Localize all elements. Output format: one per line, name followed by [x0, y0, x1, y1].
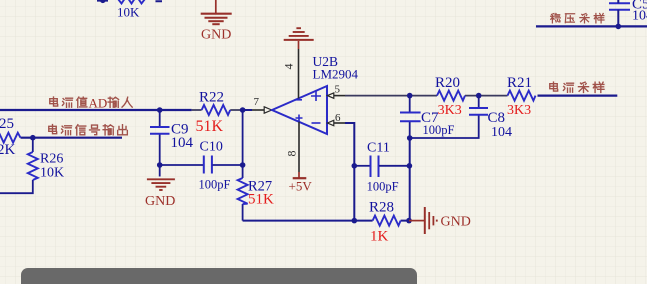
svg-text:7: 7: [254, 96, 260, 108]
svg-text:100pF: 100pF: [199, 178, 231, 192]
svg-text:3K3: 3K3: [438, 103, 462, 118]
resistor 10K top-left (partial, clipped at top): [117, 0, 147, 4]
net label 电流采样: [550, 82, 604, 92]
wire C10 right: [213, 164, 243, 166]
junction C7 top: [407, 93, 413, 99]
ground GND top (x=216): [201, 0, 232, 24]
wire C11 left: [354, 165, 370, 167]
svg-text:GND: GND: [145, 194, 175, 209]
svg-text:R22: R22: [199, 90, 224, 106]
svg-text:10K: 10K: [40, 166, 64, 181]
resistor R26: [28, 152, 38, 180]
svg-text:2K: 2K: [0, 142, 16, 158]
wire C7 bottom to C11 right and down: [409, 138, 411, 221]
pin 6 arrow: [327, 120, 333, 125]
op-amp big minus (pin6): [312, 122, 321, 124]
wire C11 right: [379, 165, 409, 167]
net label 稳压采样: [551, 14, 604, 23]
svg-text:R28: R28: [369, 200, 394, 216]
svg-text:100pF: 100pF: [367, 180, 399, 194]
pin 5 stub: [334, 95, 345, 97]
svg-text:25: 25: [0, 116, 14, 132]
svg-text:C11: C11: [367, 141, 390, 156]
svg-text:R20: R20: [435, 75, 460, 91]
capacitor C5 (top right, partial): [609, 3, 630, 10]
pin 6 stub: [334, 122, 345, 124]
svg-text:10K: 10K: [117, 4, 140, 19]
pin 8 line: [298, 122, 300, 172]
scrollbar thumb: [21, 268, 417, 284]
pin 4 line: [298, 49, 300, 98]
svg-text:LM2904: LM2904: [313, 66, 359, 81]
capacitor C8: [469, 108, 488, 115]
power +5V: [293, 172, 307, 178]
pin 7 stub and label: [252, 109, 264, 111]
wire pin6 net down: [345, 123, 354, 221]
junction at GND right: [406, 218, 412, 224]
op-amp U2B triangle: [272, 86, 327, 134]
junction C9 top: [157, 107, 163, 113]
resistor R28: [373, 216, 401, 226]
svg-text:R26: R26: [40, 152, 63, 167]
svg-text:51K: 51K: [248, 192, 274, 208]
op-amp small plus (pin8 side): [296, 115, 303, 122]
svg-text:3K3: 3K3: [507, 103, 531, 118]
svg-text:GND: GND: [441, 215, 471, 230]
svg-text:AD: AD: [89, 95, 108, 110]
junction C8 top: [476, 93, 482, 99]
junction C10 right: [240, 162, 246, 168]
net label 电流值AD输入: [50, 97, 87, 107]
junction C7 bottom: [407, 135, 413, 141]
wire C10 left: [160, 164, 204, 166]
svg-text:51K: 51K: [196, 118, 224, 135]
svg-text:+5V: +5V: [289, 178, 313, 193]
resistor R20: [437, 91, 465, 101]
wire pin5 net to 电流采样: [345, 95, 508, 97]
power ground right (bar style): [409, 207, 437, 234]
pin 5 arrow: [327, 93, 333, 98]
wire top-left partial: [97, 0, 162, 2]
svg-text:104: 104: [171, 135, 194, 151]
resistor R22: [202, 105, 231, 115]
wire C7 leads: [409, 96, 411, 138]
ground bars above op-amp (pin 4): [284, 28, 314, 49]
junction on 稳压采样 wire: [616, 24, 622, 30]
svg-text:C8: C8: [488, 110, 506, 126]
resistor R21: [508, 91, 536, 101]
wire net 稳压采样: [536, 25, 647, 27]
capacitor C9: [150, 127, 170, 134]
op-amp small minus (pin4 side): [295, 99, 303, 101]
pin 7 arrow: [264, 107, 272, 113]
wire R26 leads: [0, 138, 33, 194]
junction R27 top: [240, 107, 246, 113]
resistor R27: [238, 178, 248, 204]
junction C11 left: [352, 163, 358, 169]
svg-text:C10: C10: [200, 140, 223, 155]
wire C9 leads: [159, 110, 161, 177]
capacitor C11: [371, 156, 379, 178]
svg-text:104: 104: [491, 125, 512, 140]
net label 电流信号输出: [49, 125, 128, 135]
svg-text:GND: GND: [201, 28, 231, 43]
resistor R25 (partial at left edge): [0, 133, 21, 143]
svg-text:4: 4: [282, 64, 296, 70]
junction C11 right: [407, 163, 413, 169]
wire C8 leads: [410, 96, 479, 138]
junction C10 left: [157, 162, 163, 168]
capacitor C10: [204, 156, 212, 174]
wire C5 leads: [617, 0, 619, 26]
svg-text:104: 104: [632, 9, 647, 24]
svg-text:1K: 1K: [370, 229, 389, 245]
junction R26 top: [30, 135, 36, 141]
svg-text:8: 8: [285, 151, 299, 157]
junction top-left: [100, 0, 106, 3]
svg-text:100pF: 100pF: [423, 123, 455, 137]
wire net 电流信号输出 (y=137.7): [21, 137, 123, 139]
wire R27 bottom to R28: [243, 220, 409, 222]
junction R28 left net: [352, 218, 358, 224]
svg-text:R21: R21: [507, 75, 532, 91]
op-amp big plus (pin5): [311, 91, 321, 101]
svg-text:6: 6: [335, 112, 341, 124]
wire R27 leads: [242, 110, 244, 221]
wire net 电流值AD输入 (main input, y=110): [0, 109, 192, 111]
svg-text:5: 5: [335, 84, 341, 96]
capacitor C7: [400, 113, 421, 122]
ground GND below C9: [147, 179, 175, 190]
